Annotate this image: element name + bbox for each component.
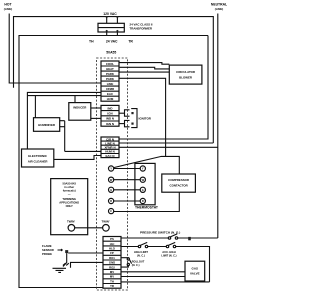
svg-text:RO2: RO2 (109, 265, 115, 269)
wire TH to right riser (121, 281, 210, 283)
wire top 120VAC rail from XFMR terminal up and across (14, 17, 214, 143)
connector ignitor plug (125, 109, 138, 128)
svg-text:IGNITOR: IGNITOR (139, 117, 152, 121)
svg-text:COMPRESSOR: COMPRESSOR (168, 178, 190, 182)
svg-text:FP: FP (110, 251, 114, 255)
svg-text:50A55-843: 50A55-843 (63, 182, 77, 186)
svg-text:120 VAC: 120 VAC (103, 12, 117, 16)
wire aux limit to right drop (176, 247, 210, 282)
svg-text:IND: IND (108, 106, 113, 110)
terminal R thermostat (140, 198, 145, 203)
svg-text:(N. C.): (N. C.) (137, 253, 145, 257)
wire CIR N to 24V right rail (119, 36, 208, 140)
label FLAME SENSOR PROBE (42, 244, 54, 256)
svg-text:MV: MV (110, 270, 114, 274)
svg-text:HUMIDIFIER: HUMIDIFIER (38, 123, 56, 127)
wire XFMR N to neutral (119, 146, 218, 148)
wire MV to gas valve (121, 271, 185, 273)
svg-text:PARK: PARK (106, 77, 115, 81)
svg-text:RO1: RO1 (109, 256, 115, 260)
ground chassis (53, 263, 69, 272)
svg-text:IGN: IGN (107, 112, 112, 116)
svg-text:INDUCER: INDUCER (73, 106, 87, 110)
control board 50A55 dashed outline (97, 58, 128, 290)
svg-text:AIR CLEANER: AIR CLEANER (28, 160, 49, 164)
wire EAC neutral return (54, 156, 101, 160)
wire NEUTRAL feed down right side (217, 14, 219, 239)
svg-text:CONTACTOR: CONTACTOR (169, 184, 188, 188)
svg-text:HIGH LIMIT: HIGH LIMIT (134, 250, 148, 254)
wire IND N (91, 117, 101, 119)
thermostat subbase box (135, 163, 155, 204)
wire Y to compressor contactor coil (114, 156, 180, 174)
transformer T1 24 VAC CLASS II (98, 16, 124, 36)
wire 24VAC secondary rail TH/TR loop (19, 36, 208, 288)
wire thermostat W (114, 179, 141, 181)
junction dot PS line (188, 237, 191, 240)
wire PS to pressure switch (121, 237, 168, 239)
terminal R board (109, 198, 114, 203)
contactor compressor (162, 174, 196, 192)
svg-text:50A55: 50A55 (106, 51, 116, 55)
terminal block inducer/ignitor IND..IGN N (101, 105, 119, 126)
svg-text:PROBE: PROBE (42, 252, 52, 256)
svg-text:C: C (110, 209, 112, 213)
svg-text:LIMIT (N. C.): LIMIT (N. C.) (161, 253, 176, 257)
svg-text:BLOWER: BLOWER (179, 76, 193, 80)
svg-text:PS: PS (110, 237, 114, 241)
svg-text:VALVE: VALVE (190, 271, 200, 275)
wire inducer drop (74, 96, 76, 103)
svg-text:HUM: HUM (107, 97, 114, 101)
svg-text:ELECTRONIC: ELECTRONIC (28, 154, 48, 158)
terminal block line-voltage COOL..HUM (101, 61, 119, 101)
wire thermostat Y (114, 168, 141, 170)
svg-text:APPLICATIONS: APPLICATIONS (59, 201, 79, 205)
switch rollout N.C. (127, 258, 131, 266)
terminal W thermostat (140, 177, 145, 182)
motor circulator blower (169, 65, 202, 84)
svg-text:COOL: COOL (106, 62, 115, 66)
wire IND (91, 107, 101, 109)
switch pressure switch N.O. (168, 234, 177, 239)
switch aux high limit N.C. (166, 242, 175, 247)
svg-text:ROLLOUT: ROLLOUT (132, 260, 145, 264)
box 50A55-843 twinning note (51, 179, 88, 235)
svg-text:XFMR: XFMR (106, 87, 115, 91)
wire PARK to blower (119, 71, 169, 73)
label 24 VAC CLASS II TRANSFORMER (130, 22, 153, 30)
wire flame sensor to ground (63, 253, 67, 266)
wire contactor to C common (114, 192, 179, 211)
wire HUM feed rail (27, 95, 101, 97)
wire GND to chassis ground (71, 262, 104, 267)
svg-text:in other: in other (64, 185, 74, 189)
terminal W board (109, 177, 114, 182)
svg-text:TH: TH (89, 40, 94, 44)
svg-text:24 VAC: 24 VAC (106, 40, 118, 44)
valve gas valve (185, 261, 205, 281)
terminal block neutrals CIR N..EAC N (101, 137, 119, 158)
wire HLI safety chain (121, 246, 138, 248)
wire HOT feed down left side to LINE terminal (9, 14, 101, 84)
svg-text:R: R (110, 199, 112, 203)
svg-text:TRANSFORMER: TRANSFORMER (130, 26, 153, 30)
svg-text:—: — (68, 193, 71, 196)
svg-text:TR: TR (128, 40, 133, 44)
wire RO1 to rollout switch (121, 257, 128, 259)
svg-text:Y: Y (110, 167, 112, 171)
label HIGH LIMIT (N.C.) (134, 250, 148, 257)
wire COOL to blower (119, 63, 169, 65)
wire HEAT to blower (119, 67, 169, 69)
svg-text:CIRCULATOR: CIRCULATOR (176, 70, 196, 74)
svg-text:GAS: GAS (192, 266, 199, 270)
wire FP to flame sensor (68, 252, 103, 254)
svg-text:HLI: HLI (110, 242, 115, 246)
svg-text:Y: Y (142, 167, 144, 171)
wire LINE N to right rail (119, 142, 213, 144)
svg-text:PARK: PARK (106, 72, 115, 76)
terminal C board (109, 209, 114, 214)
svg-text:MV: MV (110, 275, 114, 279)
svg-text:R: R (142, 199, 144, 203)
label ROLLOUT (N.C.) (132, 260, 145, 268)
wire humidifier neutral (60, 121, 101, 152)
wire PARK down to contactor node (119, 78, 166, 156)
svg-text:TWINNING: TWINNING (62, 197, 76, 201)
wire MV/PV to gas valve (121, 276, 185, 278)
svg-text:(LINE): (LINE) (4, 7, 13, 11)
terminal TWIN board (101, 220, 109, 232)
svg-text:THERMOSTAT: THERMOSTAT (135, 206, 159, 210)
svg-text:IGN N: IGN N (106, 122, 114, 126)
svg-text:TR: TR (110, 284, 114, 288)
svg-text:ONLY: ONLY (66, 204, 73, 208)
svg-text:PRESSURE SWITCH (N. O.): PRESSURE SWITCH (N. O.) (140, 230, 180, 234)
svg-text:GND: GND (109, 261, 115, 265)
svg-text:LINE: LINE (107, 82, 114, 86)
svg-text:G: G (110, 188, 112, 192)
svg-text:IND N: IND N (106, 117, 114, 121)
wire EAC feed (27, 92, 101, 149)
inducer motor (69, 103, 91, 121)
svg-text:EAC N: EAC N (106, 154, 115, 158)
humidifier HUM (34, 118, 60, 132)
svg-text:HLO: HLO (109, 247, 116, 251)
wire rollout to RO2 (121, 266, 128, 268)
terminal strip PS..TR (103, 237, 121, 289)
svg-text:(N. C.): (N. C.) (132, 263, 140, 267)
node HOT (LINE) label (4, 3, 13, 11)
node NEUTRAL (LINE) label (211, 3, 227, 11)
arrow flame sensor pointer (58, 249, 63, 251)
wire pressure switch to neutral corner (178, 237, 218, 239)
wire humidifier drop (34, 96, 36, 118)
wire thermostat R (114, 200, 141, 202)
wire between limit switches (148, 246, 167, 248)
terminal Y board (109, 166, 114, 171)
switch high limit N.C. (138, 242, 147, 247)
probe flame sensor (65, 250, 68, 253)
svg-text:(LINE): (LINE) (215, 7, 224, 11)
svg-text:furnace(s): furnace(s) (63, 189, 76, 193)
label AUX HIGH LIMIT (N.C.) (161, 250, 176, 257)
svg-text:G: G (142, 188, 144, 192)
wire TWIN interconnect (75, 227, 103, 229)
terminal TWIN external (67, 220, 75, 232)
filter electronic air cleaner (22, 149, 54, 167)
wire thermostat G (114, 189, 141, 191)
svg-text:TWIN': TWIN' (101, 220, 109, 224)
svg-text:HEAT: HEAT (106, 67, 114, 71)
svg-text:EAC: EAC (107, 92, 114, 96)
svg-text:TH: TH (110, 279, 114, 283)
svg-text:AUX. HIGH: AUX. HIGH (162, 250, 176, 254)
terminal G thermostat (140, 187, 145, 192)
terminal G board (109, 187, 114, 192)
wire IGN N to ignitor plug (119, 123, 125, 125)
svg-text:TWIN': TWIN' (67, 220, 75, 224)
terminal Y thermostat (140, 166, 145, 171)
wire IGN to ignitor plug (119, 112, 125, 114)
